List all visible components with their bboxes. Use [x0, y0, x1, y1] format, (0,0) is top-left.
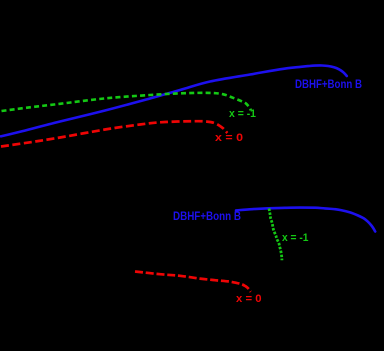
- svg-text:x = 0: x = 0: [236, 293, 262, 305]
- top panel: curve DBHF+Bonn B (blue solid): [1, 65, 347, 136]
- svg-text:DBHF+Bonn B: DBHF+Bonn B: [295, 77, 362, 91]
- svg-text:x = -1: x = -1: [229, 108, 256, 120]
- bottom panel: curve DBHF+Bonn B (blue solid): [236, 208, 375, 232]
- top panel: curve x=0 (red dashed): [1, 121, 227, 146]
- svg-text:DBHF+Bonn B: DBHF+Bonn B: [173, 209, 241, 223]
- bottom panel: curve x=-1 (green dotted): [269, 209, 282, 261]
- top panel: curve x=-1 (green dashed): [2, 93, 251, 111]
- svg-text:x = 0: x = 0: [215, 132, 243, 144]
- bottom panel: curve x=0 (red dashed): [135, 272, 251, 292]
- svg-text:x = -1: x = -1: [282, 232, 309, 244]
